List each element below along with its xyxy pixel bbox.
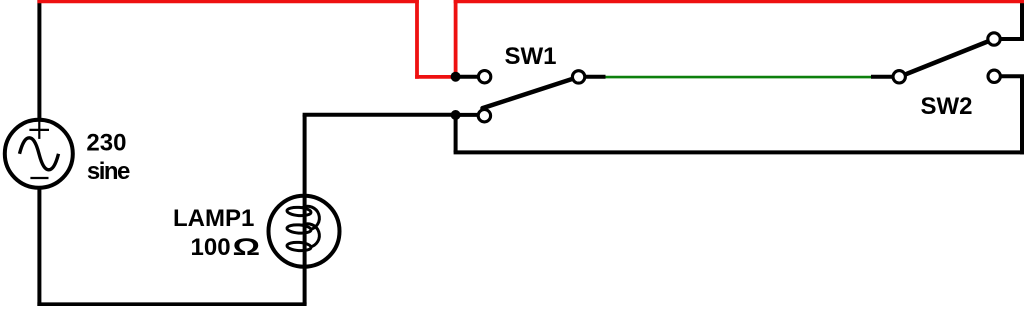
wire: red lower horizontal into junction [415,75,456,79]
svg-text:sine: sine [87,158,130,185]
SW2 lower throw contact [988,70,1000,82]
wire: black stub SW2 lower throw [1000,74,1024,78]
lamp filament coil curl 2 [302,224,319,247]
switch SW1 lever [483,77,579,108]
wire: green traveler between switches [606,76,872,79]
wire: black bottom horizontal [37,302,306,306]
junction dot upper (red net) [451,72,461,82]
wire: black vertical junction down [454,115,458,153]
svg-text:Ω: Ω [233,234,261,261]
voltage source sine wave [20,138,59,170]
junction dot lower (lamp net) [451,110,461,120]
voltage source minus sign [30,177,48,179]
wire: black left vertical from red to source [37,0,41,122]
wire: black stub SW2 upper throw [1000,37,1024,41]
wire: black source bottom vertical [37,186,41,306]
voltage source plus sign vertical [38,121,40,139]
SW1 lower throw contact [478,110,490,122]
wire: black right vertical upper [1020,0,1024,41]
wire: black long bottom horizontal to right [454,150,1024,154]
SW1 common contact [572,71,584,83]
lamp filament coil loop 1 [287,207,312,217]
svg-text:LAMP1: LAMP1 [173,205,254,232]
svg-text:SW2: SW2 [921,93,973,120]
SW1 upper throw contact [478,71,490,83]
wire: black lamp top vertical [303,115,307,200]
wire: red top-right horizontal [454,0,1024,3]
lamp filament coil curl 1 [302,206,319,229]
lamp filament coil loop 3 [287,242,312,252]
wire: black stub junction to SW1 lower throw [456,113,479,117]
SW2 upper throw contact [988,33,1000,45]
voltage source plus sign horizontal [29,129,49,131]
lamp LAMP1 circle [269,196,340,267]
wire: lamp through vertical [303,196,307,266]
wire: black right vertical lower [1020,76,1024,154]
wire: black stub SW1 common to green [580,75,606,79]
svg-text:230: 230 [86,129,126,156]
wire: red vertical at x=455.6 [454,0,458,77]
switch SW2 lever [906,39,994,74]
lamp filament coil loop 2 [287,224,312,234]
wire: black lamp bottom vertical [303,262,307,304]
wire: black stub junction to SW1 upper throw [456,75,479,79]
wire: black horizontal lamp to SW1 junction [303,113,456,117]
wire: black stub green to SW2 common [871,75,897,79]
SW2 common contact [893,71,905,83]
svg-text:SW1: SW1 [505,43,557,70]
voltage source V1 circle [5,120,73,188]
wire: red vertical at x=417 [415,0,419,79]
wire: red top-left horizontal [37,0,418,3]
svg-text:100: 100 [191,234,231,261]
